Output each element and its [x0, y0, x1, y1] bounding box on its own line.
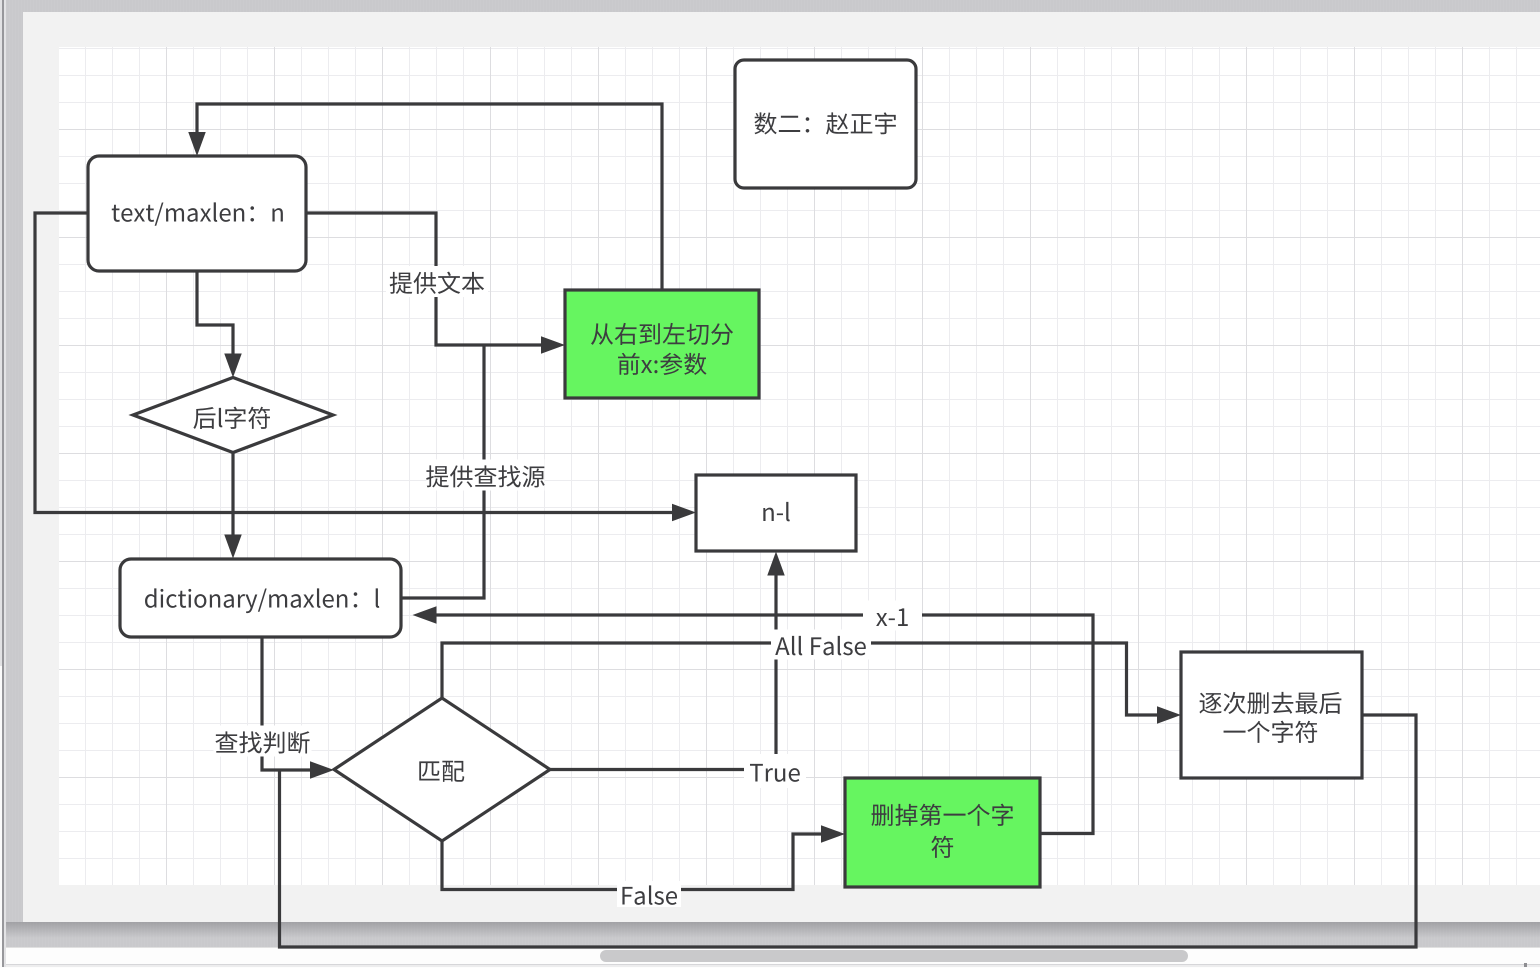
- window left edge: [0, 0, 2, 967]
- wire: True 匹配 right up into n-l bottom: [550, 575, 776, 770]
- bottom scrollbar area: [0, 947, 1540, 968]
- wire: diamond 后l字符 bottom to dictionary top: [231, 453, 234, 536]
- label: x-1: [863, 601, 922, 631]
- svg-text:text/maxlen：n: text/maxlen：n: [111, 194, 285, 229]
- svg-text:查找判断: 查找判断: [215, 724, 311, 759]
- label: 提供查找源: [427, 460, 545, 491]
- svg-text:All False: All False: [775, 627, 867, 662]
- left vertical scrollbar thumb: [0, 0, 2, 666]
- node: green box 从右到左切分 前x:参数: [565, 290, 759, 398]
- svg-text:提供查找源: 提供查找源: [426, 458, 546, 493]
- node: diamond 匹配: [334, 698, 550, 841]
- svg-text:n-l: n-l: [761, 493, 791, 528]
- svg-text:后l字符: 后l字符: [193, 399, 272, 434]
- node: text/maxlen：n: [88, 156, 306, 271]
- svg-text:dictionary/maxlen：l: dictionary/maxlen：l: [144, 580, 381, 615]
- node: diamond 后l字符: [133, 378, 333, 453]
- wire: 提供文本 text/maxlen right to split-box left: [306, 213, 541, 345]
- label: False: [617, 881, 681, 907]
- wire: text/maxlen left around to n-l left: [35, 213, 672, 513]
- svg-text:符: 符: [931, 828, 955, 863]
- wire: loop 逐次删去 right down across bottom and up to 匹配 wire junction: [280, 715, 1417, 947]
- label: True: [744, 754, 806, 788]
- node: n-l box: [696, 475, 856, 551]
- svg-text:删掉第一个字: 删掉第一个字: [871, 796, 1015, 831]
- wire: False 匹配 bottom to 删掉第一个 box left: [442, 834, 821, 890]
- node: title box 数二：赵正宇: [735, 60, 916, 188]
- node: green box 删掉第一个字符: [845, 778, 1040, 887]
- label: All False: [771, 630, 871, 660]
- wire: 提供查找源 dictionary right up to split-box left: [401, 345, 484, 598]
- svg-text:一个字符: 一个字符: [1223, 713, 1319, 748]
- svg-text:前x:参数: 前x:参数: [617, 345, 708, 380]
- svg-text:False: False: [620, 877, 678, 912]
- wire: split-box top loop back into text/maxlen top: [197, 104, 662, 290]
- label: 查找判断: [214, 726, 312, 757]
- panel bottom shadow: [0, 922, 1540, 938]
- svg-text:x-1: x-1: [876, 598, 910, 633]
- horizontal scrollbar thumb: [600, 950, 1188, 962]
- node: dictionary/maxlen：l: [120, 559, 401, 637]
- outer textured background strips: [6, 0, 1540, 12]
- wire: x-1 删掉第一个 right up and left to dictionary: [437, 615, 1094, 834]
- svg-text:True: True: [749, 754, 801, 789]
- wire: text/maxlen bottom to diamond 后l字符: [197, 271, 233, 354]
- svg-text:数二：赵正宇: 数二：赵正宇: [754, 105, 898, 140]
- wire: 查找判断 dictionary bottom to diamond 匹配 left: [262, 637, 310, 770]
- node: box 逐次删去最后一个字符: [1181, 652, 1362, 778]
- svg-text:匹配: 匹配: [417, 752, 465, 787]
- wire: All False 匹配 top to 逐次删去 box left: [442, 643, 1157, 715]
- svg-text:提供文本: 提供文本: [389, 264, 485, 299]
- label: 提供文本: [386, 266, 488, 297]
